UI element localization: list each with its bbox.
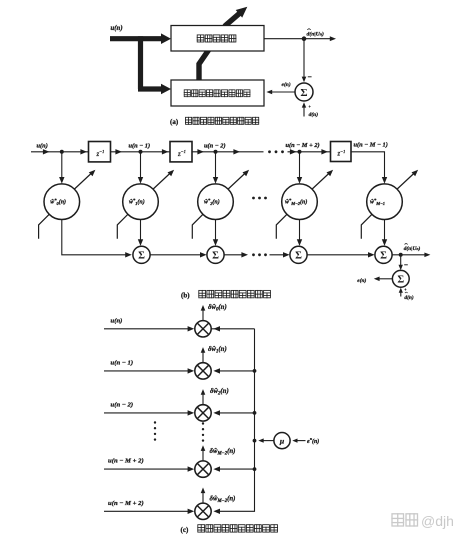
delay z-1 box 3 (b) bbox=[331, 142, 352, 162]
multiplier circle W1 (b) bbox=[123, 184, 159, 220]
junction dot u(n-M+2) tap (b) bbox=[298, 150, 302, 154]
multiplier circle X row1 (c) bbox=[195, 363, 211, 379]
ellipsis on adder row (b) bbox=[252, 253, 255, 256]
wire d(n) into error summer (b) bbox=[400, 290, 402, 297]
svg-text:Σ: Σ bbox=[295, 250, 302, 261]
svg-text:u(n − 1): u(n − 1) bbox=[129, 142, 151, 149]
svg-text:@djh: @djh bbox=[421, 513, 454, 529]
svg-text:Σ: Σ bbox=[212, 250, 219, 261]
adaptive arrow through W1 (b) bbox=[153, 174, 170, 190]
svg-text:Σ: Σ bbox=[138, 250, 145, 261]
wire row0 to bus (c) bbox=[211, 328, 254, 330]
wire thick branch down from u(n) (a) bbox=[138, 36, 143, 89]
wire mu to bus (c) bbox=[262, 440, 274, 442]
svg-text:u(n − M − 1): u(n − M − 1) bbox=[354, 142, 388, 149]
junction dot u(n) tap (b) bbox=[60, 150, 64, 154]
wire d(n) into summer (a) bbox=[303, 104, 305, 116]
adaptive arrow through W3 (b) bbox=[312, 174, 329, 190]
multiplier circle X row0 (c) bbox=[195, 321, 211, 337]
wire adder3 to adder4 (b) bbox=[307, 254, 371, 256]
wire thick adaptive arrow through filter box (a) bbox=[199, 12, 241, 80]
wire corner into last multiplier (b) bbox=[351, 152, 385, 181]
wire input u row0 (c) bbox=[104, 328, 192, 330]
adaptive arrow through W4 (b) bbox=[397, 174, 414, 190]
wire W3 output down to adder (b) bbox=[299, 220, 301, 244]
wire delta-w output arrow row0 (c) bbox=[202, 308, 204, 321]
minus sign error summer (b) bbox=[404, 264, 408, 266]
wire into adder3 (b) bbox=[270, 254, 287, 256]
junction dot bus row1 (c) bbox=[253, 369, 257, 373]
junction dot output (b) bbox=[399, 253, 403, 257]
delay z-1 box 2 (b) bbox=[170, 142, 192, 162]
wire input u row1 (c) bbox=[104, 370, 192, 372]
svg-text:u(n − M + 2): u(n − M + 2) bbox=[108, 500, 144, 507]
junction dot u(n-2) tap (b) bbox=[214, 150, 218, 154]
adder sigma 1 (b) bbox=[133, 246, 150, 263]
svg-text:u(n − M + 2): u(n − M + 2) bbox=[108, 458, 144, 465]
svg-text:u(n − 1): u(n − 1) bbox=[111, 360, 134, 367]
wire thick u(n) input arrow (a) bbox=[110, 36, 162, 41]
junction dot bus row3 (c) bbox=[253, 467, 257, 471]
svg-text:μ: μ bbox=[279, 437, 285, 446]
multiplier circle W3 (b) bbox=[282, 184, 318, 220]
adder sigma 4 (b) bbox=[375, 246, 392, 263]
svg-text:(a): (a) bbox=[170, 118, 179, 126]
junction dot on output line (a) bbox=[302, 36, 307, 41]
wire W0 output L-bend into adder1 (b) bbox=[62, 220, 129, 255]
wire delta-w output arrow row3 (c) bbox=[202, 448, 204, 461]
wire output d-hat (b) bbox=[392, 254, 426, 256]
adder sigma 2 (b) bbox=[207, 246, 224, 263]
svg-text:d(n): d(n) bbox=[404, 294, 413, 301]
wire delay2 onward (b) bbox=[192, 151, 264, 153]
summer sigma (a) bbox=[295, 83, 313, 101]
svg-text:(b): (b) bbox=[181, 291, 190, 299]
svg-text:Σ: Σ bbox=[380, 250, 387, 261]
svg-text:e*(n): e*(n) bbox=[307, 437, 319, 445]
svg-text:u(n − 2): u(n − 2) bbox=[111, 402, 134, 409]
wire W2 output down to adder (b) bbox=[215, 220, 217, 244]
wire adder2 toward ellipsis (b) bbox=[224, 254, 245, 256]
ellipsis on delay line (b) bbox=[268, 150, 271, 153]
wire delta-w output arrow row4 (c) bbox=[202, 490, 204, 503]
svg-text:e(n): e(n) bbox=[282, 81, 291, 88]
multiplier circle X row2 (c) bbox=[195, 405, 211, 421]
multiplier circle X row3 (c) bbox=[195, 461, 211, 477]
svg-text:u(n): u(n) bbox=[111, 25, 123, 32]
wire e(n) to control box (a) bbox=[271, 91, 296, 93]
error summer sigma (b) bbox=[392, 270, 409, 287]
wire delta-w output arrow row1 (c) bbox=[202, 350, 204, 363]
delay z-1 box 1 (b) bbox=[89, 142, 111, 162]
junction dot bus mu row (c) bbox=[253, 439, 257, 443]
wire into last delay (b) bbox=[288, 151, 331, 153]
wire down to summer (a) bbox=[303, 39, 305, 80]
adder sigma 3 (b) bbox=[290, 246, 307, 263]
multiplier circle W4 (b) bbox=[367, 184, 403, 220]
ellipsis on multiplier row (b) bbox=[252, 197, 255, 200]
wire e*(n) into mu (c) bbox=[296, 440, 306, 442]
wire adder1 to adder2 (b) bbox=[150, 254, 203, 256]
svg-text:d(n): d(n) bbox=[309, 111, 319, 118]
multiplier circle X row4 (c) bbox=[195, 503, 211, 519]
junction dot bus row2 (c) bbox=[253, 411, 257, 415]
wire down to error summer (b) bbox=[400, 255, 402, 268]
svg-text:e(n): e(n) bbox=[357, 277, 366, 284]
wire W4 output down to adder (b) bbox=[384, 220, 386, 244]
block transversal-filter box (a) bbox=[171, 26, 264, 52]
svg-text:d(n|Un): d(n|Un) bbox=[307, 31, 325, 38]
svg-text:u(n − 2): u(n − 2) bbox=[204, 142, 226, 149]
wire delay1 to delay2 (b) bbox=[111, 151, 171, 153]
wire delta-w output arrow row2 (c) bbox=[202, 392, 204, 405]
wire input u row2 (c) bbox=[104, 412, 192, 414]
wire e(n) output (b) bbox=[379, 278, 392, 280]
svg-text:u(n): u(n) bbox=[37, 142, 48, 149]
wire tap arrow into multiplier W1 (b) bbox=[140, 152, 142, 181]
bus vertical line (c) bbox=[216, 329, 254, 512]
svg-text:d(n|Un): d(n|Un) bbox=[404, 245, 421, 252]
wire thick arrow into control box (a) bbox=[138, 86, 162, 91]
svg-text:(c): (c) bbox=[181, 526, 189, 534]
wire bus arrow into row4 (c) bbox=[213, 509, 220, 514]
wire tap arrow into multiplier W0 (b) bbox=[61, 152, 63, 181]
gain circle mu (c) bbox=[274, 433, 290, 449]
wire bus to row2 (c) bbox=[216, 412, 255, 414]
wire tap arrow into multiplier W3 (b) bbox=[299, 152, 301, 181]
block adaptive-weight-control box (a) bbox=[171, 80, 264, 106]
wire bus to row3 (c) bbox=[216, 468, 255, 470]
wire bus to row1 (c) bbox=[216, 370, 255, 372]
wire input u row4 (c) bbox=[104, 510, 192, 512]
ellipsis left column (c) bbox=[154, 421, 156, 423]
watermark zhihu bbox=[392, 514, 404, 526]
wire input u row3 (c) bbox=[104, 468, 192, 470]
multiplier circle W0 (b) bbox=[44, 184, 80, 220]
wire tap arrow into multiplier W2 (b) bbox=[215, 152, 217, 181]
svg-text:Σ: Σ bbox=[300, 87, 307, 99]
multiplier circle W2 (b) bbox=[198, 184, 234, 220]
junction dot u(n-1) tap (b) bbox=[139, 150, 143, 154]
wire output d-hat (a) bbox=[264, 38, 330, 40]
svg-text:u(n): u(n) bbox=[111, 317, 123, 324]
adaptive arrow through W0 (b) bbox=[75, 174, 92, 190]
wire input line to first delay (b) bbox=[31, 151, 89, 153]
adaptive arrow through W2 (b) bbox=[228, 174, 245, 190]
svg-text:Σ: Σ bbox=[397, 274, 404, 285]
minus sign at summer (a) bbox=[308, 76, 312, 78]
ellipsis center column (c) bbox=[202, 422, 204, 424]
wire W1 output down to adder (b) bbox=[140, 220, 142, 244]
svg-text:u(n − M + 2): u(n − M + 2) bbox=[286, 142, 320, 149]
